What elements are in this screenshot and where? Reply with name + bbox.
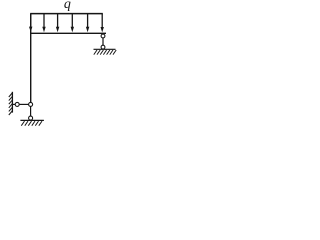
svg-text:q: q — [64, 0, 71, 12]
left support: ground hinge circle — [29, 116, 33, 120]
load arrow 1 head — [29, 27, 32, 32]
left support: wall line — [11, 92, 13, 113]
load arrow 1 shaft — [30, 14, 32, 28]
load arrow 6 head — [101, 27, 104, 32]
load arrow 4 shaft — [71, 14, 73, 28]
load arrow 4 head — [71, 27, 74, 32]
left support: wall stub — [12, 103, 15, 105]
left support: wall hinge circle — [15, 102, 19, 106]
left support: wall hatching — [9, 93, 12, 115]
load arrow 6 shaft — [101, 14, 103, 28]
left support: ground hatching — [21, 121, 42, 126]
right support: ground line — [94, 48, 116, 50]
load arrow 3 shaft — [57, 14, 59, 28]
load arrow 5 shaft — [87, 14, 89, 28]
load arrow 2 head — [42, 27, 45, 32]
load arrow 5 head — [86, 27, 89, 32]
column (left vertical member) — [30, 14, 32, 103]
left support: vertical link to ground — [30, 106, 32, 116]
left support: horizontal link — [19, 103, 28, 105]
left support: ground line — [20, 119, 44, 121]
right support: ground hatching — [94, 50, 116, 55]
load arrow 2 shaft — [43, 14, 45, 28]
beam (top horizontal member) — [30, 32, 106, 34]
right support: lower hinge circle — [101, 45, 105, 49]
load arrow 3 head — [56, 27, 59, 32]
right support: vertical link — [102, 38, 104, 45]
left support: column hinge circle — [29, 102, 33, 106]
distributed load line — [30, 13, 103, 15]
right support: upper hinge circle — [101, 34, 105, 38]
